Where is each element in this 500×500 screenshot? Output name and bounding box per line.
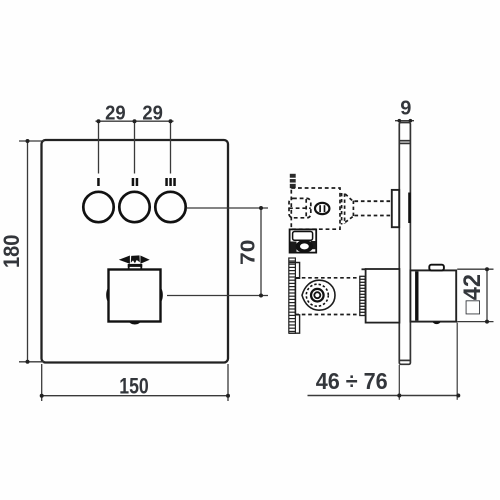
- knob square front view: [109, 270, 161, 322]
- diverter threaded nipple (top-left serration): [289, 174, 296, 188]
- knob right bump: [161, 288, 163, 303]
- dimension 70 (right of plate): [167, 208, 268, 296]
- cartridge concentric rings: [306, 284, 328, 306]
- threaded section at wall: [359, 276, 365, 315]
- cartridge teardrop cam outline: [302, 280, 335, 310]
- svg-text:29: 29: [142, 102, 163, 124]
- knob side view: [410, 270, 456, 321]
- dimension 180 (left): [19, 141, 44, 362]
- diverter screw head: [315, 203, 329, 214]
- dimension 29 29 (top): [96, 121, 174, 173]
- plate extension line down: [398, 365, 400, 400]
- temperature arrow icon: [119, 255, 150, 263]
- diverter body (dashed, in-wall): [291, 188, 340, 229]
- svg-text:29: 29: [105, 102, 126, 124]
- diverter collar on plate: [392, 190, 399, 227]
- dimension 9 (top of side plate): [400, 97, 411, 119]
- knob top tab: [128, 265, 142, 269]
- svg-text:70: 70: [237, 240, 259, 265]
- knob bottom bump: [129, 322, 141, 325]
- knob side tab: [429, 265, 444, 271]
- svg-text:□42: □42: [459, 274, 486, 315]
- svg-text:9: 9: [400, 97, 411, 119]
- svg-text:150: 150: [119, 374, 149, 399]
- knob left bump: [106, 288, 108, 303]
- diverter stem (dashed): [355, 201, 392, 215]
- button circle 3: [155, 192, 185, 222]
- wall plate side view bar: [399, 123, 410, 365]
- dimension 150 (bottom): [42, 364, 228, 401]
- svg-text:180: 180: [0, 235, 24, 268]
- svg-text:46 ÷ 76: 46 ÷ 76: [316, 368, 388, 394]
- plate front view: [42, 140, 229, 363]
- button circle 2: [119, 192, 149, 222]
- button circle 1: [83, 192, 113, 222]
- plate hole edge (thick segment): [408, 193, 411, 224]
- mark III: [165, 178, 176, 186]
- cartridge flange serrated strip: [289, 258, 296, 333]
- cartridge flange plate: [289, 263, 300, 334]
- cartridge cover at plate: [366, 269, 400, 323]
- diverter left nut (dashed): [289, 198, 311, 217]
- cartridge body side view (dashed top/bottom): [295, 278, 360, 315]
- mark I: [97, 178, 100, 186]
- dimension 46 ÷ 76: [308, 395, 459, 397]
- dimension square 42: [457, 269, 493, 321]
- diverter cone (dashed): [342, 193, 354, 225]
- knob side bottom bump: [433, 322, 441, 324]
- outlet elbow bracket: [290, 229, 317, 252]
- mark II: [132, 178, 139, 186]
- knob extension line down: [456, 323, 458, 400]
